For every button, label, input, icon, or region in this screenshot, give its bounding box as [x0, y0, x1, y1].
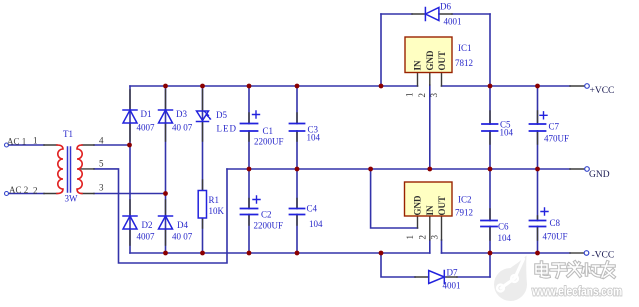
- junction dot pin3 node: [163, 191, 168, 196]
- svg-text:IN: IN: [425, 205, 435, 216]
- op-amp regulator IC1 box: [405, 37, 452, 73]
- wire GND center-tap route: [94, 169, 227, 263]
- terminal AC1: [5, 143, 9, 147]
- svg-text:C4: C4: [307, 204, 318, 214]
- wire IC2 GND pin route: [371, 169, 418, 228]
- svg-text:4: 4: [99, 136, 104, 146]
- svg-text:D7: D7: [447, 268, 458, 278]
- pin stub D5: [202, 90, 204, 141]
- capacitor C5: [482, 124, 498, 131]
- pin stub C7: [537, 111, 539, 144]
- pin stub D1: [129, 90, 131, 141]
- diode D4: [159, 216, 173, 229]
- svg-text:C2: C2: [261, 210, 272, 220]
- terminal +VCC: [585, 84, 590, 89]
- wire negative rail left segment: [130, 252, 430, 254]
- capacitor C6: [481, 221, 497, 227]
- wire column C5 C6 output: [489, 14, 491, 277]
- wire D6 input riser: [380, 14, 382, 86]
- svg-text:1: 1: [33, 136, 38, 146]
- svg-text:2: 2: [417, 93, 427, 98]
- svg-text:1: 1: [405, 93, 415, 98]
- junction dot pin4 node: [127, 143, 132, 148]
- pin stub D3: [165, 90, 167, 141]
- capacitor C7: [530, 112, 548, 131]
- svg-text:2200UF: 2200UF: [254, 221, 284, 231]
- wire IC2 OUT pin to negative rail: [441, 240, 443, 253]
- svg-text:3: 3: [429, 93, 439, 98]
- svg-text:2200UF: 2200UF: [254, 137, 284, 147]
- capacitor C1: [241, 111, 260, 131]
- resistor R1: [198, 191, 206, 219]
- wire top rail left segment: [130, 85, 418, 87]
- watermark chinese text: [536, 262, 614, 277]
- wire column C3 C4: [296, 86, 298, 253]
- svg-text:40 07: 40 07: [172, 123, 193, 133]
- svg-text:R1: R1: [209, 195, 220, 205]
- svg-text:GND: GND: [413, 195, 423, 216]
- pin stub IC2 pin2: [429, 217, 431, 241]
- svg-text:2: 2: [418, 235, 428, 240]
- svg-text:IN: IN: [413, 60, 423, 71]
- diode D1: [123, 110, 137, 123]
- svg-text:104: 104: [307, 133, 321, 143]
- capacitor C2: [241, 196, 261, 215]
- pin stub IC1 pin2: [429, 72, 431, 85]
- svg-text:AC 1: AC 1: [7, 137, 26, 147]
- svg-text:C8: C8: [550, 218, 561, 228]
- svg-text:T1: T1: [63, 129, 73, 139]
- terminal GND: [585, 167, 590, 172]
- wire D6 top link: [381, 13, 412, 15]
- svg-text:3: 3: [430, 235, 440, 240]
- op-amp regulator IC2 box: [405, 182, 453, 216]
- terminal AC2: [5, 192, 9, 196]
- wire negative rail right segment: [442, 252, 571, 254]
- capacitor C4: [290, 209, 305, 215]
- pin stub C3: [296, 113, 298, 141]
- svg-text:D3: D3: [176, 109, 187, 119]
- pin stub C1: [248, 113, 250, 141]
- svg-text:4007: 4007: [137, 232, 156, 242]
- junction dots negative rail: [163, 251, 540, 256]
- wire column C1 C2: [248, 86, 250, 253]
- watermark logo disc: [494, 256, 527, 302]
- svg-text:www.elecfans.com: www.elecfans.com: [531, 284, 622, 298]
- svg-text:+VCC: +VCC: [590, 86, 615, 96]
- wire D7 input riser: [381, 253, 415, 277]
- svg-text:4001: 4001: [444, 17, 462, 27]
- svg-text:10K: 10K: [209, 206, 225, 216]
- svg-text:470UF: 470UF: [544, 134, 569, 144]
- terminal -VCC: [584, 251, 589, 256]
- svg-text:104: 104: [498, 233, 512, 243]
- svg-text:7912: 7912: [455, 208, 473, 218]
- svg-text:D1: D1: [141, 109, 152, 119]
- svg-text:4001: 4001: [443, 281, 461, 291]
- diode D2: [123, 216, 137, 229]
- svg-text:5: 5: [99, 159, 104, 169]
- svg-text:-VCC: -VCC: [592, 251, 615, 261]
- wire GND rail: [227, 168, 570, 170]
- svg-text:OUT: OUT: [437, 51, 447, 71]
- svg-text:7812: 7812: [455, 58, 473, 68]
- svg-text:4007: 4007: [137, 123, 156, 133]
- wire column C7 C8: [537, 86, 539, 253]
- svg-text:3: 3: [99, 183, 104, 193]
- pin stub D7: [415, 276, 457, 278]
- svg-text:D5: D5: [216, 110, 227, 120]
- transformer T1 core: [68, 147, 71, 192]
- wire transformer pin 3 net: [94, 193, 166, 195]
- svg-text:3W: 3W: [65, 194, 79, 204]
- wire column D1 D2: [129, 86, 131, 253]
- svg-text:AC 2: AC 2: [9, 185, 28, 195]
- pin stub transformer right: [81, 145, 94, 194]
- pin stub transformer left: [44, 145, 57, 194]
- svg-text:104: 104: [309, 219, 323, 229]
- pin stub IC2 pin3: [441, 217, 443, 241]
- pin stub C6: [489, 209, 491, 240]
- diode D7: [429, 271, 445, 284]
- svg-text:1: 1: [405, 235, 415, 240]
- svg-text:D4: D4: [177, 220, 188, 230]
- svg-text:D2: D2: [142, 220, 153, 230]
- pin stub D4: [165, 200, 167, 245]
- transformer T1 primary winding: [57, 145, 63, 194]
- wire IC2 IN pin to negative rail: [429, 240, 431, 253]
- diode D6: [425, 8, 439, 21]
- svg-text:C6: C6: [498, 222, 509, 232]
- svg-text:104: 104: [500, 128, 514, 138]
- svg-text:GND: GND: [425, 50, 435, 71]
- svg-text:LED: LED: [217, 124, 238, 134]
- wire transformer pin 4 net: [94, 144, 130, 146]
- svg-text:GND: GND: [589, 170, 610, 180]
- pin stub D6: [412, 13, 452, 15]
- wire column D3 D4: [165, 86, 167, 253]
- capacitor C8: [530, 208, 549, 227]
- pin stub IC1 pin1: [417, 72, 419, 86]
- svg-text:D6: D6: [440, 2, 451, 12]
- pin stub IC1 pin3: [441, 72, 443, 86]
- svg-text:470UF: 470UF: [543, 232, 568, 242]
- wire column D5 R1: [202, 86, 204, 253]
- wire top rail right segment: [442, 85, 571, 87]
- svg-text:40 07: 40 07: [172, 232, 193, 242]
- pin stub GND terminal: [570, 168, 585, 170]
- pin stub IC2 pin1: [417, 217, 419, 229]
- pin stub C2: [248, 199, 250, 226]
- svg-text:2: 2: [33, 186, 38, 196]
- transformer T1 secondary winding: [77, 145, 82, 194]
- wire AC1 input: [9, 144, 45, 146]
- pin stub D2: [129, 200, 131, 245]
- wire IC1 GND pin to ground rail: [429, 85, 431, 169]
- pin stub R1: [202, 180, 204, 228]
- LED D5: [197, 111, 212, 122]
- pin stub -VCC terminal: [570, 252, 584, 254]
- svg-text:C7: C7: [549, 122, 560, 132]
- pin stub C8: [537, 216, 539, 240]
- svg-text:IC1: IC1: [458, 43, 472, 53]
- svg-text:IC2: IC2: [458, 195, 472, 205]
- pin stub C4: [296, 199, 298, 226]
- wire D7 bottom link: [457, 276, 490, 278]
- pin stub C5: [489, 111, 491, 144]
- diode D3: [159, 110, 173, 123]
- svg-text:OUT: OUT: [437, 196, 447, 216]
- junction dots top rail: [163, 84, 540, 89]
- pin stub +VCC terminal: [570, 85, 585, 87]
- capacitor C3: [290, 124, 305, 132]
- svg-text:C1: C1: [263, 126, 274, 136]
- junction dots ground rail: [247, 167, 540, 172]
- wire AC2 input: [9, 193, 45, 195]
